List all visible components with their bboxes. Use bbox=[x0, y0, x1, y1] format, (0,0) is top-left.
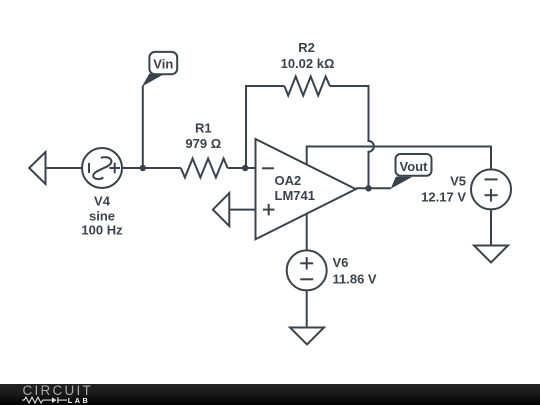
voltage source V5 bbox=[471, 169, 511, 209]
svg-text:10.02 kΩ: 10.02 kΩ bbox=[281, 56, 335, 71]
wire V4 to node Vin bbox=[122, 167, 143, 169]
wire feedback right (R2 down to output) with hop over supply wire bbox=[330, 86, 374, 188]
ground (below V5) bbox=[474, 246, 508, 263]
svg-text:100 Hz: 100 Hz bbox=[81, 222, 123, 237]
wire ground to non-inverting input bbox=[229, 209, 255, 211]
wire R1 to inverting node bbox=[228, 167, 246, 169]
svg-text:11.86 V: 11.86 V bbox=[333, 271, 377, 286]
svg-text:V4: V4 bbox=[94, 194, 111, 209]
resistor R2 bbox=[284, 77, 329, 96]
svg-text:sine: sine bbox=[89, 208, 115, 223]
svg-text:LM741: LM741 bbox=[275, 188, 315, 203]
label V4 sine 100 Hz bbox=[81, 194, 123, 238]
junction at inverting input bbox=[242, 165, 248, 171]
resistor R1 bbox=[181, 159, 228, 178]
svg-text:Vin: Vin bbox=[153, 57, 173, 72]
node flag Vin bbox=[142, 52, 177, 87]
wire junction to op-amp inverting input bbox=[245, 167, 255, 169]
svg-text:12.17 V: 12.17 V bbox=[421, 190, 466, 205]
svg-text:LAB: LAB bbox=[68, 396, 91, 405]
label V6 11.86 V bbox=[333, 255, 377, 286]
wire feedback left (junction up to R2) bbox=[246, 86, 284, 168]
wire V5 to ground bbox=[490, 209, 492, 245]
node flag Vout bbox=[391, 154, 432, 189]
label R2 10.02 kΩ bbox=[281, 40, 335, 71]
wire node Vin to R1 bbox=[143, 167, 181, 169]
wire V- power pin to V6 bbox=[306, 214, 308, 251]
svg-text:R1: R1 bbox=[195, 121, 212, 136]
wire V+ power pin to V5 bbox=[307, 147, 491, 170]
junction node Vin bbox=[140, 165, 146, 171]
wire op-amp output bbox=[356, 187, 391, 189]
svg-text:979 Ω: 979 Ω bbox=[185, 136, 221, 151]
wire ground to V4 bbox=[46, 167, 83, 169]
voltage source V4 (sine) bbox=[82, 148, 122, 188]
svg-text:R2: R2 bbox=[298, 40, 315, 55]
label V5 12.17 V bbox=[421, 174, 466, 205]
wire V6 to ground bbox=[306, 290, 308, 327]
svg-text:V6: V6 bbox=[333, 255, 349, 270]
svg-text:Vout: Vout bbox=[400, 159, 429, 174]
op-amp OA2 bbox=[256, 139, 356, 239]
voltage source V6 bbox=[287, 250, 327, 290]
ground (non-inverting input) bbox=[213, 193, 229, 226]
ground (below V6) bbox=[290, 328, 324, 345]
label R1 979 Ω bbox=[185, 121, 221, 152]
CircuitLab logo bar bbox=[0, 383, 540, 405]
svg-text:V5: V5 bbox=[450, 174, 466, 189]
label OA2 LM741 bbox=[275, 173, 315, 203]
ground (left of V4) bbox=[29, 152, 45, 184]
svg-text:OA2: OA2 bbox=[275, 173, 302, 188]
junction at output bbox=[365, 185, 371, 191]
wire Vin flag stem bbox=[142, 86, 144, 169]
